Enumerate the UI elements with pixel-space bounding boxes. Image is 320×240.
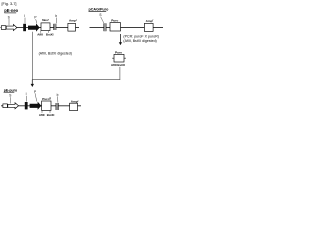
svg-text:Neor: Neor <box>42 18 49 22</box>
svg-text:S: S <box>9 94 11 98</box>
AflII tick <box>40 31 42 33</box>
svg-text:AflII: AflII <box>111 63 117 67</box>
svg-text:Puro: Puro <box>111 19 118 23</box>
pE-puro Puro-R gene box <box>42 101 51 110</box>
pE-neo element S box <box>1 26 6 30</box>
svg-text:Ampr: Ampr <box>69 19 77 23</box>
svg-text:b: b <box>57 93 59 97</box>
joining horizontal wire <box>32 79 120 81</box>
left drop wire from pE-neo <box>31 32 33 80</box>
svg-text:[Fig. 3-7]: [Fig. 3-7] <box>2 2 17 6</box>
svg-text:P: P <box>34 16 36 20</box>
right drop wire from Puro fragment <box>119 67 121 80</box>
pE-neo Neo-r gene box <box>41 23 50 31</box>
pE-puro Amp-r box <box>70 103 78 110</box>
Puro fragment box <box>114 54 124 62</box>
BstXI tick <box>47 31 49 33</box>
svg-text:BstXI: BstXI <box>117 63 125 67</box>
svg-text:(AflII, BstXI digested): (AflII, BstXI digested) <box>39 51 72 55</box>
svg-text:pE-puro: pE-puro <box>4 88 17 92</box>
svg-text:S: S <box>99 13 101 17</box>
svg-text:b: b <box>55 14 57 18</box>
pE-neo black box element <box>23 24 26 31</box>
svg-text:I: I <box>24 14 25 18</box>
pE-puro AflII tick <box>41 110 43 113</box>
pE-puro promoter arrow <box>8 103 19 109</box>
pE-puro polyA hatched box <box>56 103 59 110</box>
pCAG/Puro hatched box <box>104 23 107 31</box>
pE-puro BstXI tick <box>49 110 51 113</box>
svg-text:BstXI: BstXI <box>47 113 55 117</box>
pE-puro black arrow element <box>30 102 42 110</box>
PCR down arrow <box>119 34 121 43</box>
svg-text:(AflII, BstXI digested): (AflII, BstXI digested) <box>123 39 156 43</box>
svg-text:AflII: AflII <box>37 32 43 36</box>
pE-puro backbone wire <box>1 105 81 107</box>
pE-neo Amp-r box <box>68 23 76 31</box>
pCAG/Puro Puro gene box <box>110 23 121 31</box>
arrow into pE-puro <box>31 80 33 85</box>
pCAG/Puro backbone wire <box>90 27 164 29</box>
svg-text:I: I <box>26 92 27 96</box>
svg-text:Ampr: Ampr <box>71 100 79 104</box>
svg-text:BstXI: BstXI <box>46 32 54 36</box>
fragment left stub <box>112 57 114 59</box>
svg-text:pE-neo: pE-neo <box>4 8 18 13</box>
svg-text:Ampr: Ampr <box>146 19 154 23</box>
svg-text:pCAG/Puro: pCAG/Puro <box>89 7 110 11</box>
svg-text:Puro: Puro <box>115 50 122 54</box>
pCAG/Puro Amp-r box <box>144 23 153 31</box>
pE-neo backbone wire <box>1 27 80 29</box>
pE-puro black box element <box>25 102 28 109</box>
pE-neo promoter arrow <box>6 25 17 31</box>
svg-text:S: S <box>8 15 10 19</box>
svg-text:AflII: AflII <box>39 113 45 117</box>
pE-neo polyA hatched box <box>53 24 56 30</box>
pE-puro element S box <box>3 104 8 108</box>
pE-neo black arrow element <box>28 23 40 31</box>
fragment right stub <box>124 57 126 59</box>
